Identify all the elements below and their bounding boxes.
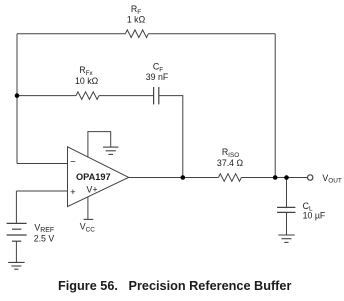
wire top feedback	[17, 33, 125, 35]
wire node A to R_Fx	[17, 95, 76, 97]
wire right vertical to output node	[274, 34, 276, 178]
ground at C_L	[278, 235, 294, 242]
wire noninverting input	[16, 190, 67, 192]
svg-text:Figure 56. Precision Referen: Figure 56. Precision Reference Buffer	[58, 279, 291, 293]
capacitor C_F	[154, 87, 159, 104]
svg-text:VCC: VCC	[80, 222, 95, 234]
svg-text:V+: V+	[86, 184, 97, 194]
wire left vertical node A	[16, 34, 18, 164]
junction C_L	[284, 175, 289, 180]
svg-text:2.5 V: 2.5 V	[34, 234, 55, 244]
resistor R_ISO	[218, 174, 241, 182]
svg-text:1 kΩ: 1 kΩ	[127, 14, 146, 24]
junction R_F feedback	[273, 175, 278, 180]
wire inverting input	[17, 163, 68, 165]
svg-text:−: −	[70, 157, 76, 168]
wire V- supply stub	[88, 132, 111, 158]
svg-text:10 kΩ: 10 kΩ	[75, 76, 99, 86]
svg-text:+: +	[70, 187, 76, 198]
svg-text:OPA197: OPA197	[76, 172, 111, 182]
wire C_L to ground	[286, 212, 288, 235]
wire C_F to output	[159, 96, 183, 178]
wire R_Fx to C_F	[99, 95, 154, 97]
wire C_L branch	[286, 178, 288, 208]
svg-text:VREF: VREF	[34, 222, 54, 234]
V+ terminal bar	[84, 218, 94, 220]
resistor R_F	[125, 30, 148, 38]
wire R_ISO to Vout terminal	[241, 177, 307, 179]
battery V_REF	[7, 223, 27, 241]
junction C_F / output	[181, 175, 186, 180]
wire battery to ground	[15, 241, 17, 262]
junction node A	[15, 93, 20, 98]
wire output to R_ISO	[129, 177, 219, 179]
resistor R_Fx	[76, 92, 99, 100]
terminal V_OUT	[308, 175, 313, 180]
wire V+ supply stub	[87, 197, 89, 220]
svg-text:10 µF: 10 µF	[303, 211, 326, 221]
op-amp U1 OPA197	[68, 147, 129, 207]
svg-text:39 nF: 39 nF	[146, 72, 169, 82]
ground at V-	[103, 147, 118, 154]
svg-text:37.4 Ω: 37.4 Ω	[217, 158, 244, 168]
svg-text:VOUT: VOUT	[322, 173, 341, 185]
ground at battery	[8, 262, 24, 269]
capacitor C_L	[277, 207, 295, 212]
wire to battery	[15, 191, 17, 223]
